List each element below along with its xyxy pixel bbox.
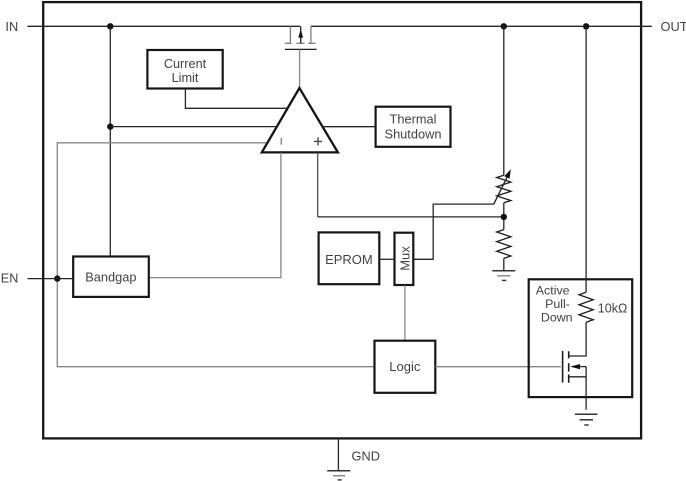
R1 wiper arrow	[494, 176, 508, 205]
op-amp inverting input label	[280, 138, 282, 145]
node junction at x110 y126.6	[107, 123, 113, 129]
svg-text:IN: IN	[5, 19, 18, 34]
svg-text:Shutdown: Shutdown	[385, 126, 442, 141]
wire OUT rail	[311, 25, 652, 27]
wire Bandgap to op-amp inverting input	[149, 153, 281, 278]
wire R1 bottom to node	[503, 203, 505, 230]
wire op-amp to Thermal Shutdown	[322, 126, 375, 128]
node OUT junction (pull-down resistor)	[583, 23, 589, 29]
op-amp non-inverting input label +	[314, 137, 322, 145]
svg-text:Mux: Mux	[397, 246, 412, 271]
op-amp U1	[262, 88, 338, 152]
Q1 gate bar	[285, 48, 317, 50]
svg-text:Pull-: Pull-	[545, 297, 570, 311]
Q2 source wire	[570, 367, 587, 410]
wire IN rail	[28, 25, 301, 27]
node OUT junction (feedback divider)	[501, 23, 507, 29]
transistor Q2 (pull-down NMOS)	[562, 351, 564, 383]
svg-text:Down: Down	[541, 311, 573, 325]
wire IN junction down to Bandgap	[109, 26, 111, 256]
wire junction to op-amp left edge	[110, 126, 277, 128]
resistor R2 (bottom divider)	[497, 230, 511, 259]
ground (pull-down)	[575, 413, 598, 415]
wire Mux to Logic	[404, 285, 406, 341]
svg-text:10kΩ: 10kΩ	[598, 302, 628, 316]
wire gray enable loop: horizontal to op-amp	[57, 143, 374, 367]
svg-text:Active: Active	[536, 284, 570, 298]
wire Logic to pull-down gate	[435, 366, 561, 368]
wire op-amp non-inverting input to feedback node	[317, 153, 319, 217]
box Current Limit	[147, 50, 222, 89]
wire OUT down to 10k resistor	[585, 26, 587, 292]
wire R2 to ground	[503, 258, 505, 270]
node EN junction	[54, 275, 60, 281]
wire GND pin stub	[337, 438, 339, 470]
box Active Pull-Down	[529, 279, 633, 397]
box EPROM	[319, 232, 380, 284]
node feedback junction	[501, 214, 507, 220]
svg-text:GND: GND	[352, 448, 380, 463]
svg-text:Thermal: Thermal	[390, 112, 437, 127]
wire EPROM to Mux	[379, 258, 394, 260]
box Mux	[395, 233, 414, 285]
svg-text:EPROM: EPROM	[325, 252, 373, 267]
ground GND pin	[327, 470, 350, 472]
svg-text:Logic: Logic	[389, 359, 421, 374]
wire Current Limit to op-amp	[185, 90, 287, 109]
box Thermal Shutdown	[376, 107, 451, 147]
Q1 body arrow	[300, 26, 302, 43]
ground (feedback divider)	[492, 270, 515, 272]
IC outer border	[43, 2, 641, 438]
node IN junction (to bandgap column)	[107, 23, 113, 29]
box Logic	[375, 341, 436, 393]
Q2 body arrow	[578, 366, 586, 368]
wire OUT down to top feedback resistor	[503, 26, 505, 175]
wire EN	[28, 278, 74, 280]
svg-text:EN: EN	[1, 272, 19, 286]
svg-text:Bandgap: Bandgap	[85, 270, 136, 285]
svg-text:Current: Current	[164, 57, 207, 71]
transistor Q1 (PMOS pass element)	[285, 26, 316, 43]
box Bandgap	[73, 257, 149, 297]
svg-text:OUT: OUT	[661, 19, 686, 34]
resistor R3 10kOhm	[579, 292, 593, 322]
resistor R1 (trimmed top divider)	[497, 175, 511, 203]
wire Mux to wiper	[413, 204, 493, 259]
wire Q1 gate to op-amp output	[299, 49, 301, 87]
wire R3 to Q2 drain	[570, 322, 587, 356]
svg-text:Limit: Limit	[172, 71, 199, 85]
